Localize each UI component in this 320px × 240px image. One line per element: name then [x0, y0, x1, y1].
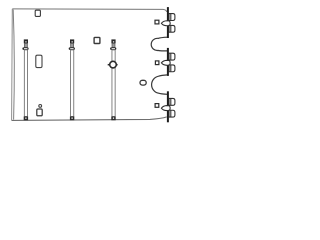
- rod3 neck: [112, 43, 115, 47]
- rod2 body: [71, 50, 74, 117]
- bottom hinge screw square: [155, 104, 159, 108]
- rod3 ball equator ticks: [108, 64, 118, 66]
- rod3 body: [112, 50, 115, 117]
- rod2 top cap: [70, 39, 74, 43]
- panel left inner edge: [13, 10, 14, 120]
- rod1 body: [24, 50, 27, 117]
- top small square hole: [35, 10, 40, 16]
- small rounded square hole: [37, 109, 42, 116]
- panel left outer edge: [11, 9, 14, 120]
- rod3 bottom cap dot: [113, 118, 114, 119]
- panel bottom edge: [12, 117, 167, 121]
- top hinge lens collar: [161, 21, 170, 26]
- rod3 collar slit: [112, 47, 115, 50]
- middle hinge upper knuckle: [169, 53, 175, 60]
- panel top edge: [12, 9, 166, 12]
- rod2 bottom cap: [70, 117, 74, 121]
- rod3 top cap dot: [113, 41, 114, 42]
- rod2 collar: [69, 47, 75, 50]
- bottom hinge lower knuckle: [169, 110, 175, 117]
- pin rod 3: [108, 39, 118, 120]
- rod1 bottom cap: [24, 117, 28, 121]
- hinge pin bar (middle): [167, 48, 169, 76]
- square hole near rod 3: [94, 37, 100, 43]
- bottom hinge lens collar: [161, 106, 170, 111]
- bottom hinge upper knuckle: [169, 98, 175, 105]
- top hinge lower knuckle: [169, 25, 175, 32]
- top hinge upper knuckle: [169, 14, 175, 21]
- rod1 collar: [22, 47, 28, 50]
- rod3 ball: [110, 61, 117, 68]
- middle hinge lower knuckle: [169, 65, 175, 72]
- oval hole near scallop B: [140, 80, 146, 85]
- hinge pin bar (top): [167, 7, 169, 38]
- rod1 collar slit: [24, 47, 27, 50]
- rod1 neck: [24, 43, 27, 47]
- hinge pin bar (bottom): [167, 91, 169, 122]
- pin rod 1: [22, 39, 28, 120]
- scallop cutout A (between top and middle hinge): [151, 37, 167, 51]
- rod2 neck: [71, 43, 74, 47]
- rod1 top cap dot: [25, 41, 26, 42]
- rod2 bottom cap dot: [71, 118, 72, 119]
- tall rounded slot: [36, 55, 42, 67]
- rod1 top cap: [24, 39, 28, 43]
- rod3 top cap: [111, 39, 115, 43]
- middle hinge screw square: [155, 61, 159, 65]
- rod2 collar slit: [70, 47, 73, 50]
- tiny circle hole: [39, 105, 42, 108]
- scallop cutout B (between middle and bottom hinge): [152, 75, 168, 94]
- rod2 top cap dot: [72, 41, 73, 42]
- rod1 bottom cap dot: [25, 118, 26, 119]
- middle hinge lens collar: [161, 60, 170, 65]
- pin rod 2: [69, 39, 75, 120]
- top hinge screw square: [155, 20, 159, 24]
- rod3 bottom cap: [111, 117, 115, 121]
- rod3 collar: [110, 47, 116, 50]
